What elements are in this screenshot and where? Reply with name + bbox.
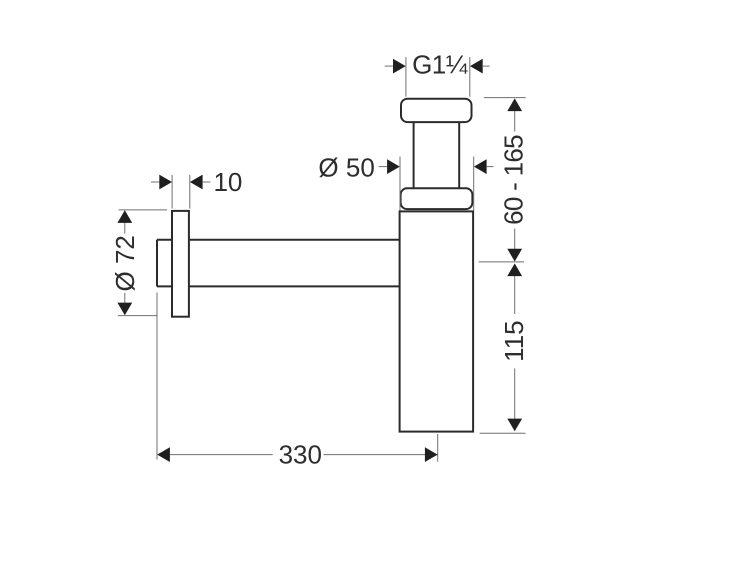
svg-text:10: 10 <box>213 167 242 197</box>
svg-text:330: 330 <box>279 440 322 470</box>
svg-text:Ø 72: Ø 72 <box>110 235 140 291</box>
svg-text:Ø 50: Ø 50 <box>318 153 374 183</box>
svg-text:G1¼: G1¼ <box>412 50 468 80</box>
svg-text:115: 115 <box>499 320 529 361</box>
svg-text:60 - 165: 60 - 165 <box>498 135 528 225</box>
